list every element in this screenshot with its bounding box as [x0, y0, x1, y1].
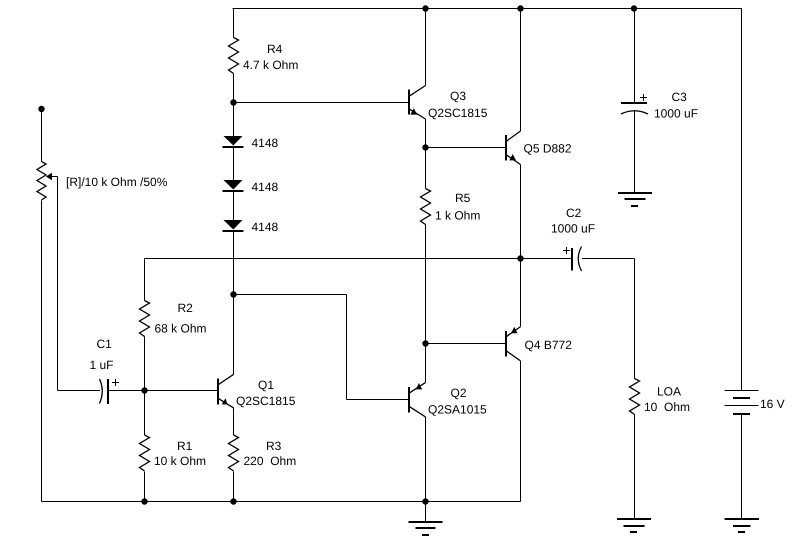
- svg-text:R4: R4: [267, 42, 283, 56]
- wire Q2 collector down: [425, 417, 427, 502]
- wire Q4 collector down: [520, 361, 522, 502]
- transistor Q4 emitter lead: [506, 327, 521, 338]
- transistor Q5 collector lead: [506, 131, 521, 142]
- svg-text:16 V: 16 V: [760, 397, 785, 411]
- svg-text:4148: 4148: [252, 136, 279, 150]
- input terminal dot: [38, 106, 44, 112]
- wire D3 to node A: [233, 231, 235, 295]
- wire top supply rail: [233, 8, 743, 10]
- svg-text:R1: R1: [177, 439, 193, 453]
- svg-text:Q5 D882: Q5 D882: [524, 142, 572, 156]
- wire R1 bottom: [144, 472, 146, 502]
- svg-text:10 Ohm: 10 Ohm: [644, 400, 690, 414]
- svg-text:Q3: Q3: [450, 89, 466, 103]
- transistor Q3 bar: [408, 90, 410, 115]
- transistor Q2 emitter arrow: [416, 383, 423, 389]
- junction top rail / C3: [631, 5, 637, 11]
- capacitor C1: [100, 379, 103, 404]
- svg-text:[R]/10 k Ohm /50%: [R]/10 k Ohm /50%: [66, 175, 168, 189]
- node A junction diodes/Q1 collector/feedback: [230, 291, 236, 297]
- svg-text:Q1: Q1: [258, 378, 274, 392]
- junction R3/ground rail: [230, 498, 236, 504]
- transistor Q1 bar: [217, 379, 219, 405]
- svg-text:C1: C1: [97, 337, 113, 351]
- junction top rail / Q3 collector: [422, 5, 428, 11]
- wire Q1 collector up: [233, 295, 235, 375]
- ground LOA: [617, 519, 651, 532]
- wire battery to ground: [741, 414, 743, 519]
- wire pot bottom to ground rail: [41, 201, 43, 502]
- svg-text:220 Ohm: 220 Ohm: [244, 454, 297, 468]
- transistor Q1 emitter lead: [218, 398, 234, 408]
- svg-text:10 k Ohm: 10 k Ohm: [154, 454, 206, 468]
- svg-text:1 uF: 1 uF: [90, 358, 114, 372]
- resistor R1: [140, 435, 150, 471]
- svg-text:4148: 4148: [252, 180, 279, 194]
- wire Q2 base: [347, 399, 410, 401]
- ground Q2 collector: [409, 502, 443, 536]
- junction top rail / Q5 collector: [517, 5, 523, 11]
- battery B1 16V: [741, 9, 743, 391]
- svg-text:LOA: LOA: [657, 385, 681, 399]
- svg-text:C3: C3: [672, 90, 688, 104]
- svg-text:4148: 4148: [252, 220, 279, 234]
- wire wiper vertical drop: [57, 177, 59, 391]
- wire Q3 base: [234, 102, 410, 104]
- svg-text:C2: C2: [566, 206, 582, 220]
- transistor Q3 collector lead: [409, 86, 426, 97]
- transistor Q5 emitter lead: [506, 154, 521, 164]
- diode D3 4148: [224, 220, 243, 230]
- wire Q5 collector to rail: [520, 9, 522, 132]
- wire Q2 emitter up: [425, 344, 427, 383]
- svg-text:68 k Ohm: 68 k Ohm: [155, 322, 207, 336]
- wire R4 top stub: [233, 9, 235, 38]
- wire R2 top corner: [144, 259, 146, 301]
- junction R1/ground rail: [141, 498, 147, 504]
- svg-text:Q2SC1815: Q2SC1815: [428, 106, 488, 120]
- transistor Q4 bar: [505, 331, 507, 357]
- wire D2 to D3: [233, 191, 235, 221]
- wire C1 to base node: [108, 390, 217, 392]
- wire feedback horizontal top: [234, 294, 347, 296]
- wire Q3 collector to rail: [425, 9, 427, 86]
- transistor Q2 collector lead: [409, 406, 426, 417]
- wire C3 to ground: [634, 110, 636, 192]
- wire C2 to load: [582, 258, 635, 260]
- wire R5 bottom to Q4 base node: [425, 225, 427, 344]
- ground C3: [618, 193, 652, 206]
- resistor R2: [140, 301, 150, 337]
- svg-text:R5: R5: [455, 191, 471, 205]
- transistor Q1 emitter arrow: [222, 398, 228, 404]
- wire LOA bottom to ground: [634, 415, 636, 519]
- wire Q5 emitter to output node: [520, 165, 522, 259]
- wire Q1 emitter to R3: [233, 408, 235, 436]
- wire wiper to C1: [58, 390, 101, 392]
- potentiometer [R] 10k: [37, 162, 46, 201]
- wire middle rail R2 to C2: [145, 258, 573, 260]
- transistor Q3 emitter arrow: [410, 108, 417, 114]
- wire Q4 emitter up: [520, 259, 522, 327]
- transistor Q5 bar: [505, 135, 507, 161]
- svg-text:Q2SA1015: Q2SA1015: [428, 403, 487, 417]
- wire Q3 emitter down: [425, 119, 427, 189]
- transistor Q4 emitter arrow: [511, 327, 518, 333]
- ground battery: [725, 519, 760, 532]
- transistor Q2 emitter lead: [409, 383, 426, 394]
- svg-text:1000 uF: 1000 uF: [654, 107, 698, 121]
- potentiometer wiper arrow: [46, 173, 52, 180]
- transistor Q4 collector lead: [506, 350, 521, 361]
- svg-text:R3: R3: [266, 439, 282, 453]
- svg-text:Q2: Q2: [451, 386, 467, 400]
- wire Q4 base: [426, 343, 506, 345]
- junction Q3 emitter/R5/Q5 base: [422, 144, 428, 150]
- junction Q2 collector/ground rail: [422, 498, 428, 504]
- transistor Q5 emitter arrow: [509, 154, 516, 160]
- resistor LOA load: [630, 379, 640, 415]
- capacitor C3: [634, 9, 636, 103]
- capacitor C2: [571, 248, 573, 271]
- junction node C1/R2/R1/Q1 base: [141, 387, 147, 393]
- junction R5/Q2 emitter/Q4 base: [422, 340, 428, 346]
- wire load column down: [634, 259, 636, 379]
- wire feedback vertical drop: [346, 295, 348, 400]
- wire R2 bottom to node: [144, 337, 146, 436]
- svg-text:1 k Ohm: 1 k Ohm: [435, 209, 480, 223]
- transistor Q2 bar: [408, 387, 410, 413]
- svg-text:Q4 B772: Q4 B772: [525, 338, 573, 352]
- wire input to potentiometer: [41, 109, 43, 162]
- svg-text:4.7 k Ohm: 4.7 k Ohm: [243, 58, 298, 72]
- svg-text:Q2SC1815: Q2SC1815: [236, 394, 296, 408]
- wire wiper horizontal: [52, 176, 58, 178]
- transistor Q1 collector lead: [218, 374, 234, 385]
- junction output node / C2: [517, 255, 523, 261]
- svg-text:1000 uF: 1000 uF: [551, 222, 595, 236]
- diode D2 4148: [224, 180, 243, 190]
- resistor R4: [229, 38, 239, 74]
- junction node R4/diodes/Q3 base: [230, 99, 236, 105]
- wire bottom ground rail: [42, 501, 521, 503]
- transistor Q3 emitter lead: [409, 109, 426, 119]
- diode D1 4148: [224, 136, 243, 146]
- wire Q5 base: [426, 147, 506, 149]
- resistor R3: [229, 435, 239, 471]
- wire R4 bottom to diode D1: [233, 74, 235, 137]
- wire D1 to D2: [233, 147, 235, 181]
- wire R3 bottom: [233, 472, 235, 502]
- resistor R5: [421, 189, 431, 225]
- svg-text:R2: R2: [178, 301, 194, 315]
